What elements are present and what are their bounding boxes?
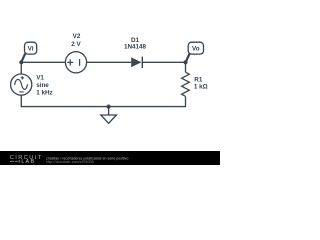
V2 value label [71,33,81,48]
wire left branch lower: V1 bottom to rail [20,95,22,107]
ground [101,115,117,123]
footer attribution text [46,157,128,165]
svg-text:V2: V2 [73,33,81,40]
voltage source V2 (DC) [65,52,86,73]
svg-text:2 V: 2 V [71,41,81,48]
diode D1 [131,57,142,68]
svg-text:Vo: Vo [192,46,200,53]
svg-text:Vi: Vi [28,46,34,53]
wire right branch lower: R1 to rail [185,96,187,107]
R1 value label [194,77,208,91]
junction dot ground node [107,105,111,109]
wire D1 to Vo node [142,61,185,63]
voltage source V1 (sine) [11,74,32,95]
resistor R1 [182,72,190,96]
wire ground stub [108,107,110,115]
svg-text:1N4148: 1N4148 [124,43,147,50]
node Vi flag [21,42,36,62]
svg-text:sine: sine [36,82,49,89]
svg-text:1 kΩ: 1 kΩ [194,84,208,91]
node Vo flag [186,42,204,62]
junction dot node Vo [183,60,187,64]
svg-text:http://circuitlab.com/c439335: http://circuitlab.com/c439335 [46,160,94,164]
wire right branch upper: Vo node to R1 [185,62,187,72]
wire left branch upper: node to V1 top [20,62,22,74]
svg-text:R1: R1 [194,77,203,84]
svg-text:1 kHz: 1 kHz [36,90,52,97]
footer CircuitLab logo [10,155,43,165]
V1 value label [36,75,52,97]
wire top left: Vi node to V2 [21,61,65,63]
svg-text:V1: V1 [36,75,44,82]
D1 value label [124,37,147,51]
footer watermark bar [0,151,220,165]
wire bottom rail [21,106,185,108]
junction dot node Vi [19,60,23,64]
wire V2 to D1 [87,61,132,63]
svg-text:LAB: LAB [21,159,35,165]
